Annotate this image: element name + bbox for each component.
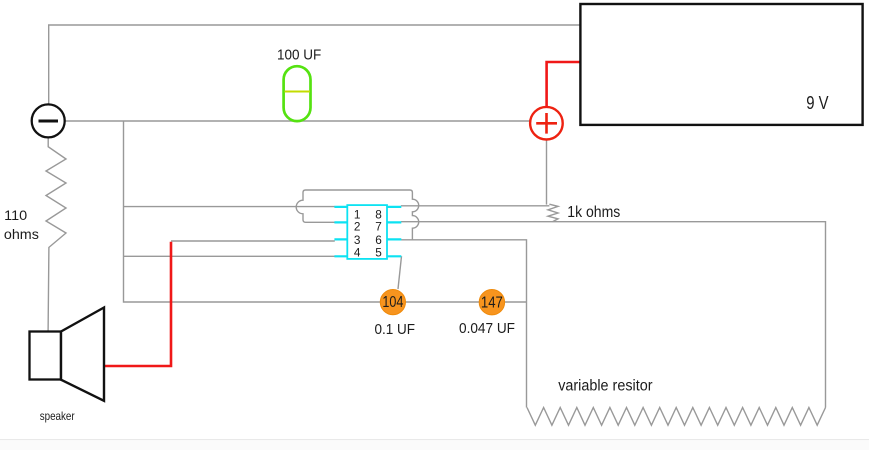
svg-text:7: 7 [375, 220, 382, 234]
svg-text:9 V: 9 V [806, 92, 829, 113]
wire: top bus from negative terminal to battery [49, 25, 581, 104]
capacitor 100 UF [284, 66, 311, 121]
page bottom edge band [0, 439, 869, 450]
svg-text:147: 147 [481, 294, 503, 311]
wire: negative rail from minus terminal to plus terminal [65, 120, 530, 122]
capacitor 147 (0.047 UF) [479, 290, 504, 315]
negative terminal [32, 104, 65, 137]
speaker horn [61, 308, 104, 401]
svg-text:0.047 UF: 0.047 UF [459, 320, 515, 337]
pin number labels [354, 208, 382, 260]
svg-text:1k ohms: 1k ohms [567, 204, 620, 221]
svg-text:speaker: speaker [40, 409, 75, 423]
speaker box [30, 332, 62, 380]
svg-text:variable resitor: variable resitor [558, 377, 652, 394]
wire: plus terminal down to 1k resistor [546, 140, 548, 205]
svg-text:100 UF: 100 UF [277, 46, 321, 63]
svg-text:5: 5 [375, 245, 382, 259]
wire: pin 7 rail to variable resistor [401, 222, 826, 408]
svg-text:4: 4 [354, 245, 361, 259]
wire: red positive wire to battery [547, 62, 581, 108]
variable resistor zigzag [527, 408, 826, 426]
wire: pin 8 to Vcc node [401, 205, 550, 207]
IC timer chip [334, 205, 401, 259]
svg-text:0.1 UF: 0.1 UF [375, 321, 416, 338]
resistor R 110 ohms zigzag [46, 138, 66, 331]
wire: pin 4 [124, 255, 335, 257]
svg-text:104: 104 [382, 294, 403, 311]
svg-text:2: 2 [354, 220, 361, 234]
wire: pin 3 output [171, 240, 335, 242]
wire: pin 1 [124, 206, 335, 208]
wire: red output wire to speaker [104, 242, 172, 366]
svg-text:ohms: ohms [4, 226, 39, 242]
resistor R 1k ohms [548, 204, 558, 222]
wire: left vertical bus to pins 1,4 and 0.1uF cap [124, 121, 527, 302]
positive terminal [530, 107, 563, 140]
svg-text:110: 110 [4, 207, 27, 223]
wire: pin 5 to 0.1uF cap [398, 256, 402, 289]
wire: pin 6 to variable resistor left end [401, 240, 527, 408]
wire: pin2 to pin6 loop around chip [296, 190, 418, 240]
capacitor 104 (0.1 UF) [380, 290, 405, 315]
battery 9V box [580, 4, 862, 125]
